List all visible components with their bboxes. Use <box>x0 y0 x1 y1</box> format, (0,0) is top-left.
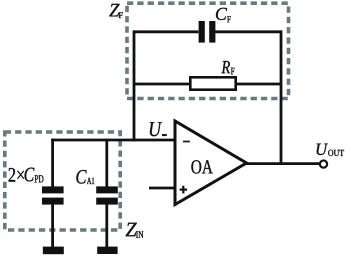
op-amp OA <box>175 121 247 205</box>
label R_F <box>221 61 234 74</box>
capacitor CA1 <box>96 186 118 204</box>
label Z_F <box>109 4 123 18</box>
wire: capacitor CPD top lead <box>51 139 54 187</box>
op-amp inverting pin mark <box>183 141 190 143</box>
ground (below CA1) <box>97 247 117 254</box>
label C_F <box>216 8 231 22</box>
wire: inverting input horizontal (node U-) <box>51 139 176 142</box>
wire: capacitor CPD bottom lead <box>51 204 54 248</box>
label OA <box>191 160 212 173</box>
wire: feedback left vertical (ZF to inverting input node) <box>133 30 136 141</box>
wire: capacitor CA1 bottom lead <box>105 204 108 248</box>
capacitor CF <box>199 21 216 43</box>
wire: feedback right vertical (ZF to output node) <box>280 30 283 165</box>
label U_minus node <box>150 122 167 136</box>
wire: feedback cap branch, right segment <box>215 30 281 33</box>
wire: feedback resistor branch, left segment <box>134 83 191 86</box>
wire: feedback cap branch, left segment <box>134 30 198 33</box>
wire: capacitor CA1 top lead <box>105 139 108 187</box>
capacitor 2xCPD <box>42 186 64 204</box>
wire: non-inverting input stub <box>149 187 176 190</box>
ground (below CPD) <box>43 247 64 255</box>
resistor RF <box>190 77 235 89</box>
wire: output <box>245 162 320 165</box>
output terminal circle <box>320 161 327 168</box>
label Z_IN <box>126 223 144 238</box>
label 2xC_PD <box>9 168 44 183</box>
label C_A1 <box>76 170 94 184</box>
dashed box ZF (feedback network) <box>127 3 289 98</box>
wire: feedback resistor branch, right segment <box>236 83 282 86</box>
label U_OUT <box>317 144 344 156</box>
op-amp non-inverting pin mark <box>180 186 188 194</box>
dashed box ZIN (input network) <box>5 132 120 230</box>
